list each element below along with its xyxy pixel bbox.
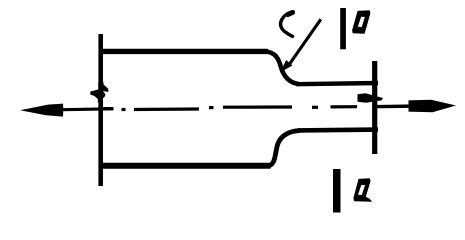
section mark bar bottom <box>333 169 341 213</box>
bottom contour of wide section <box>99 163 271 169</box>
left end line <box>98 34 103 186</box>
break symbol <box>90 82 108 103</box>
section mark bar top <box>340 8 346 49</box>
label a bottom <box>353 178 372 202</box>
top fillet r <box>267 52 299 84</box>
label r <box>281 12 293 36</box>
leader line for r <box>289 19 321 65</box>
bottom contour of narrow section <box>298 127 378 132</box>
left force arrow <box>20 104 114 117</box>
right force arrow <box>377 100 456 113</box>
label a top <box>352 10 370 33</box>
leader arrowhead <box>280 60 293 73</box>
bottom fillet <box>270 131 301 166</box>
right end line <box>372 61 377 154</box>
top contour of wide section <box>99 49 269 54</box>
small arrowhead at right end face <box>358 93 384 103</box>
top contour of narrow section <box>296 83 378 84</box>
centerline axis dash-dot <box>100 107 357 110</box>
